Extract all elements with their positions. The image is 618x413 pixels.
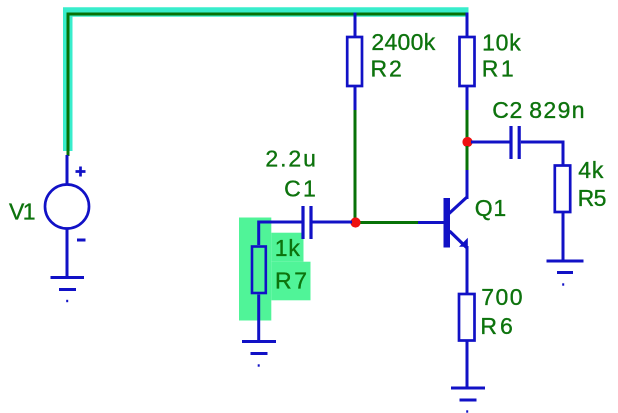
svg-text:C2: C2 bbox=[492, 97, 522, 123]
svg-text:1k: 1k bbox=[275, 235, 301, 261]
selection highlight rect around R7 body bbox=[239, 218, 271, 321]
wire highlight (selected net from V1 to top rail) bbox=[68, 12, 469, 151]
node base junction dot wire (green) from R2 bbox=[360, 221, 419, 224]
V1 minus sign bbox=[77, 239, 86, 242]
svg-text:4k: 4k bbox=[578, 157, 604, 183]
ground below V1 bbox=[51, 278, 85, 302]
wire R7 bottom lead bbox=[257, 295, 260, 342]
svg-text:2.2u: 2.2u bbox=[265, 146, 316, 172]
wire R1 to collector node (green) bbox=[466, 110, 469, 138]
wire collector lead bbox=[466, 170, 469, 199]
wire C1 right plate to node bbox=[313, 221, 353, 224]
svg-text:R1: R1 bbox=[482, 56, 514, 82]
wire R6 bottom lead bbox=[466, 341, 469, 389]
wire V1 bottom lead bbox=[66, 230, 69, 278]
capacitor C1 right plate bbox=[309, 206, 312, 239]
transistor Q1 collector stroke bbox=[449, 197, 468, 214]
wire R2 bottom lead bbox=[354, 86, 357, 110]
wire R1 bottom lead bbox=[466, 86, 469, 110]
capacitor C2 right plate bbox=[518, 126, 521, 159]
wire base lead bbox=[418, 221, 444, 224]
capacitor C1 left plate bbox=[301, 206, 304, 239]
wire node to C2 left plate bbox=[471, 141, 510, 144]
transistor Q1 emitter stroke bbox=[450, 231, 467, 248]
wire V1 top lead bbox=[66, 155, 69, 184]
node base junction dot bbox=[350, 217, 360, 227]
ground below R6 bbox=[451, 388, 485, 412]
svg-text:10k: 10k bbox=[482, 30, 521, 56]
node collector junction dot bbox=[462, 137, 472, 147]
ground below R5 bbox=[547, 261, 584, 285]
resistor R2 bbox=[347, 37, 362, 86]
V1 plus sign bbox=[76, 167, 86, 177]
ground below R7 bbox=[242, 342, 276, 366]
capacitor C2 left plate bbox=[509, 126, 512, 159]
wire from V1 plus up and across top rail (green, selected) bbox=[68, 14, 467, 156]
voltage source V1 circle bbox=[45, 185, 89, 229]
wire node to collector (green) bbox=[466, 146, 469, 170]
resistor R5 bbox=[555, 166, 570, 213]
resistor R6 bbox=[459, 294, 475, 341]
svg-text:R7: R7 bbox=[275, 268, 307, 294]
svg-text:R6: R6 bbox=[480, 313, 512, 339]
svg-text:C1: C1 bbox=[284, 176, 316, 202]
wire R1 top tap bbox=[466, 13, 469, 38]
transistor Q1 emitter arrowhead bbox=[459, 238, 468, 247]
svg-text:829n: 829n bbox=[529, 97, 584, 123]
wire R5 bottom lead bbox=[562, 212, 565, 261]
resistor R7 bbox=[252, 247, 266, 294]
transistor Q1 base bar bbox=[444, 198, 451, 248]
wire emitter down to R6 bbox=[466, 246, 469, 294]
selection highlight rect around R7 value label bbox=[271, 233, 303, 262]
svg-text:R5: R5 bbox=[578, 185, 607, 211]
wire C2 right plate to corner bbox=[521, 142, 563, 166]
svg-text:2400k: 2400k bbox=[371, 29, 435, 55]
svg-text:R2: R2 bbox=[371, 56, 402, 82]
selection highlight rect around R7 name label bbox=[271, 262, 310, 301]
resistor R1 bbox=[460, 37, 475, 86]
wire R2 to node (green) bbox=[354, 110, 357, 219]
svg-text:V1: V1 bbox=[9, 199, 36, 225]
svg-text:Q1: Q1 bbox=[475, 195, 507, 221]
wire C1 left lead and corner down to R7 bbox=[259, 222, 302, 245]
wire R2 top tap bbox=[354, 13, 357, 38]
svg-text:700: 700 bbox=[481, 284, 522, 310]
